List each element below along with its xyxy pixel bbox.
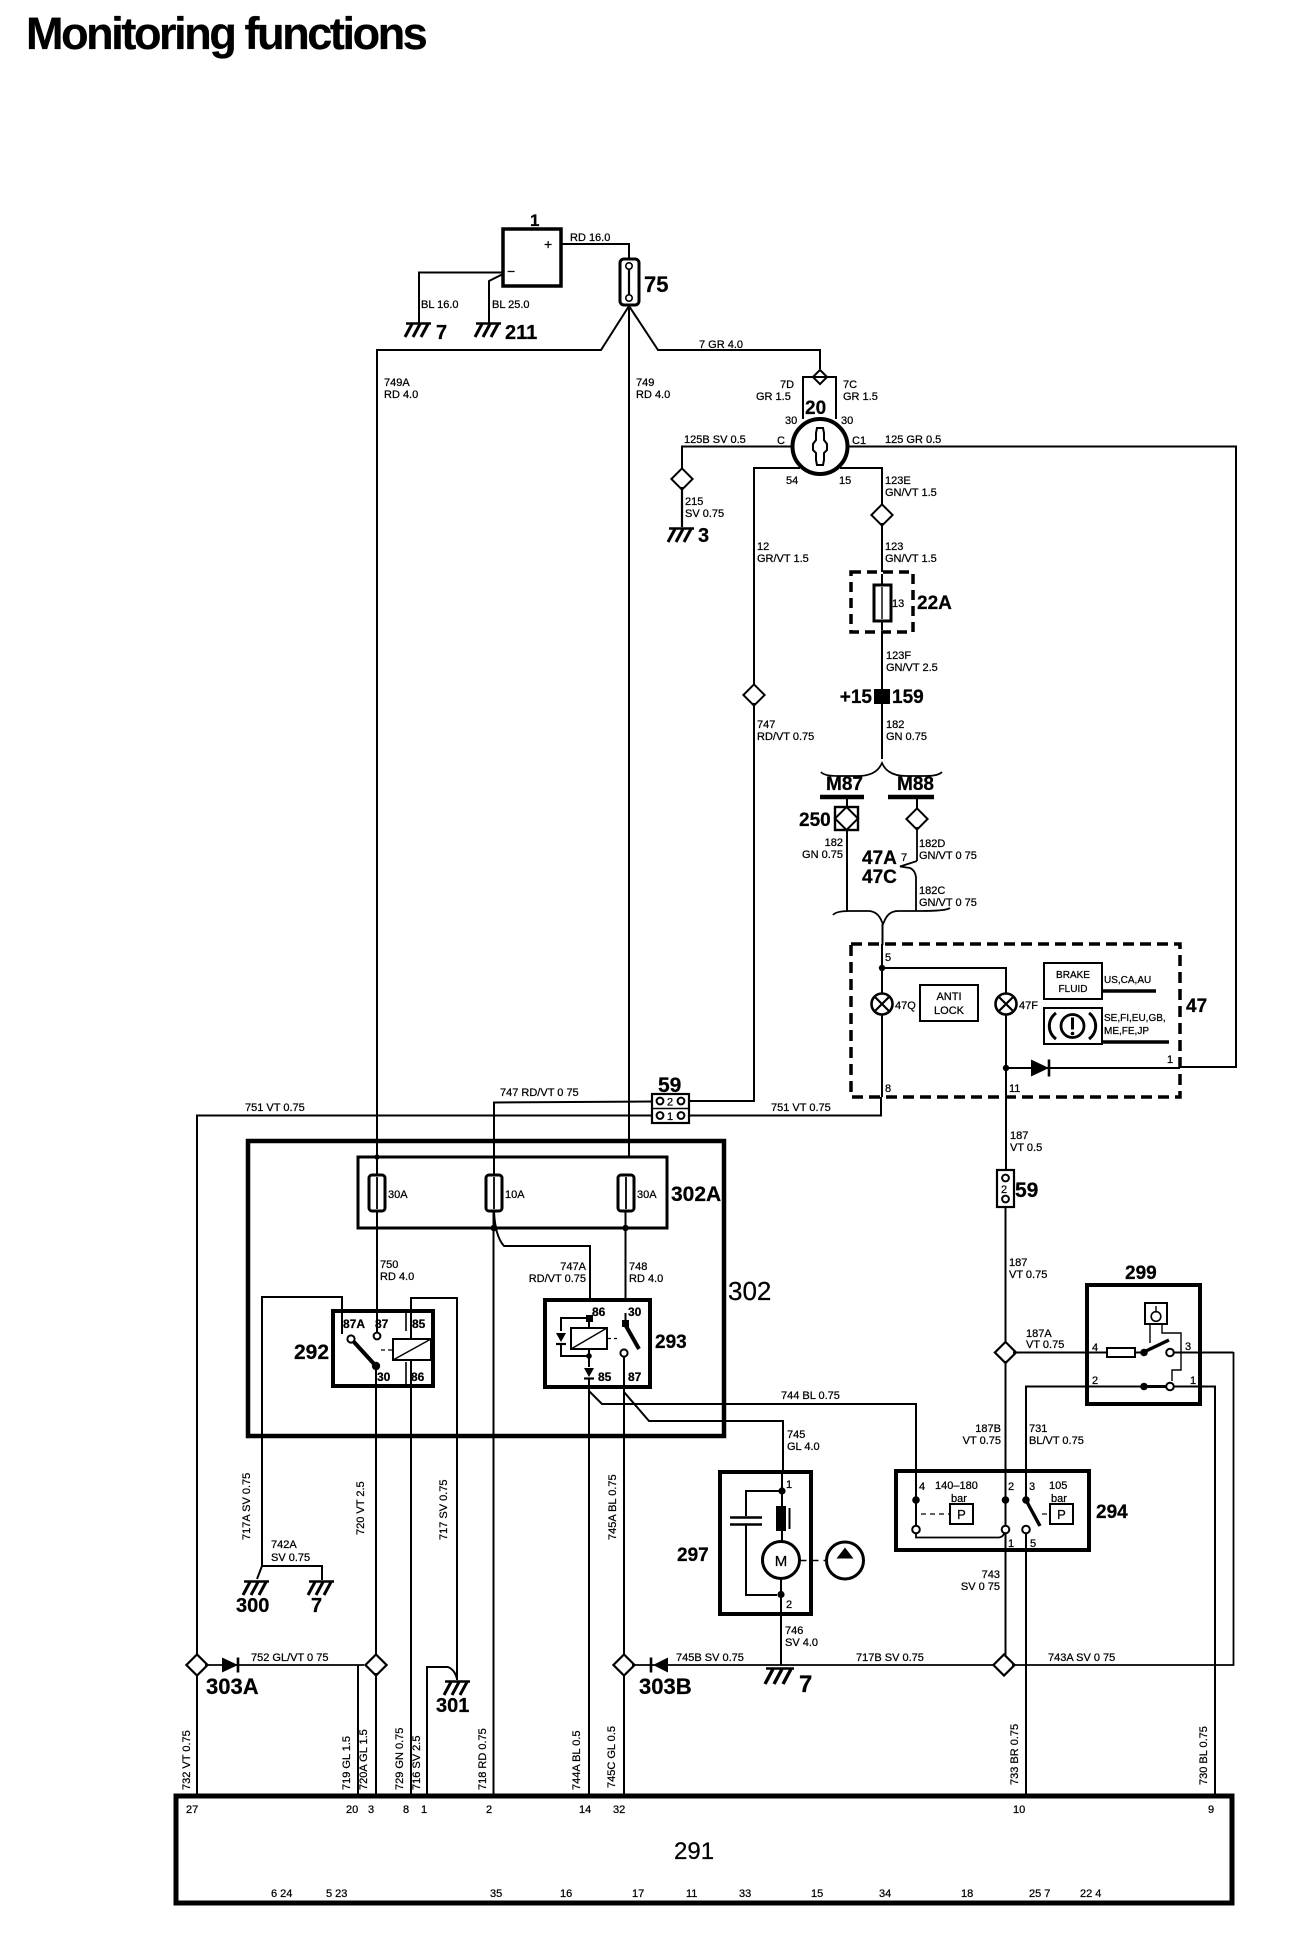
svg-text:291: 291 [674,1838,714,1865]
svg-text:743: 743 [982,1569,1000,1581]
node M88 [888,774,934,809]
svg-text:1: 1 [421,1804,427,1816]
svg-text:SE,FI,EU,GB,: SE,FI,EU,GB, [1104,1013,1166,1024]
svg-text:12: 12 [757,541,769,553]
svg-text:BL/VT 0.75: BL/VT 0.75 [1029,1435,1084,1447]
relay 293 [545,1300,687,1387]
svg-text:215: 215 [685,496,703,508]
connector diamond 215 [671,468,692,489]
svg-text:751 VT 0.75: 751 VT 0.75 [771,1102,831,1114]
svg-text:M88: M88 [897,774,934,795]
wire 87A loop (relay 292 to 717A) [262,1297,342,1436]
svg-text:GN/VT 1.5: GN/VT 1.5 [885,553,937,565]
wire 745 GL 4.0 (relay 293:87 to motor 297:1) [624,1392,820,1472]
connector diamond 123 [871,504,892,525]
brace bottom [833,908,950,945]
svg-text:1: 1 [530,211,539,230]
svg-text:27: 27 [186,1804,198,1816]
svg-text:717B SV 0.75: 717B SV 0.75 [856,1652,924,1664]
wire 749 RD 4.0 (fuse 75 down to fuse 302A:3) [629,304,670,1158]
ground 300 [236,1582,269,1618]
svg-text:SV 4.0: SV 4.0 [785,1637,818,1649]
svg-text:C1: C1 [852,435,866,447]
pin 11 wire [1003,1014,1021,1097]
svg-text:731: 731 [1029,1423,1047,1435]
svg-text:182: 182 [825,837,843,849]
svg-text:BL 16.0: BL 16.0 [421,299,459,311]
svg-text:11: 11 [686,1888,697,1900]
diode and wire 752 GL/VT 0.75 [205,1652,364,1673]
svg-text:745: 745 [787,1429,805,1441]
node M87 [820,774,864,807]
fuse holder 302A [358,1154,721,1231]
ground 7 (mid-left) [308,1582,334,1618]
svg-text:303A: 303A [206,1674,259,1699]
svg-text:744A BL 0.5: 744A BL 0.5 [571,1730,583,1790]
svg-text:182: 182 [886,719,904,731]
svg-text:86: 86 [592,1305,606,1319]
svg-text:85: 85 [598,1370,612,1384]
wire 745A BL 0.75 (relay 293:87 to 303B) [607,1436,624,1655]
svg-text:32: 32 [613,1804,625,1816]
ground 211 [475,322,537,344]
fuse 10A (302A middle) [486,1175,525,1211]
svg-text:87: 87 [628,1370,642,1384]
wire 716 SV 2.5 (291:1 to ground 301) [411,1667,457,1797]
svg-text:2: 2 [667,1097,673,1109]
wire 747A RD/VT 0.75 (fuse2 to relay 293:86) [491,1211,590,1300]
svg-text:BRAKE: BRAKE [1056,970,1090,981]
svg-text:123E: 123E [885,475,911,487]
svg-text:4: 4 [919,1481,925,1493]
svg-text:159: 159 [892,687,924,708]
wire 720 VT 2.5 (relay 292:30 to diamond) [355,1436,376,1655]
svg-text:59: 59 [1015,1179,1038,1202]
svg-text:5 23: 5 23 [326,1888,347,1900]
svg-text:1: 1 [1167,1054,1173,1066]
svg-text:7D: 7D [780,379,794,391]
svg-text:744 BL 0.75: 744 BL 0.75 [781,1390,840,1402]
svg-text:732 VT 0.75: 732 VT 0.75 [181,1730,193,1790]
diode D47 and pin 1 [1006,1054,1180,1077]
connector diamond 303B [613,1654,691,1699]
svg-text:17: 17 [632,1888,644,1900]
svg-text:746: 746 [785,1625,803,1637]
svg-text:2: 2 [1008,1481,1014,1493]
svg-text:GL 4.0: GL 4.0 [787,1441,820,1453]
wire 733 BR 0.75 (294:5 to 291:10) [1009,1550,1026,1797]
svg-text:SV 0 75: SV 0 75 [961,1581,1000,1593]
wire 718 RD 0.75 (fuse2 straight down) [493,1211,495,1436]
wire 749A RD 4.0 (fuse 75 to fuse 302A:1) [377,306,629,1175]
svg-text:SV 0.75: SV 0.75 [271,1552,310,1564]
wire 744A (relay 293:85 down) [588,1387,590,1436]
svg-text:125 GR 0.5: 125 GR 0.5 [885,434,941,446]
wire 747 RD/VT 0.75 (diamond down to 59:2) [689,703,814,1101]
connector diamond 743 [993,1654,1014,1675]
svg-text:1: 1 [1190,1375,1196,1387]
lamp 47F [996,994,1039,1015]
svg-text:RD 4.0: RD 4.0 [384,389,418,401]
svg-text:30: 30 [377,1370,391,1384]
pin 5 [879,944,891,994]
svg-text:GN/VT 2.5: GN/VT 2.5 [886,662,938,674]
wire 215 SV 0.75 [682,487,724,527]
svg-text:2: 2 [1092,1375,1098,1387]
svg-text:3: 3 [698,525,709,547]
svg-text:182C: 182C [919,885,945,897]
svg-text:743A SV 0 75: 743A SV 0 75 [1048,1652,1115,1664]
svg-text:ANTI: ANTI [936,991,961,1003]
svg-text:747A: 747A [560,1261,586,1273]
svg-text:86: 86 [411,1370,425,1384]
svg-text:30A: 30A [637,1189,657,1201]
svg-text:211: 211 [505,322,537,344]
svg-text:35: 35 [490,1888,502,1900]
wire 720 (relay 292:30 down) [375,1386,377,1436]
svg-text:1: 1 [1008,1538,1014,1550]
connector diamond 187A [995,1342,1016,1363]
svg-text:2: 2 [1001,1184,1007,1196]
svg-text:25 7: 25 7 [1029,1888,1050,1900]
svg-text:−: − [507,263,515,279]
svg-text:1: 1 [667,1111,673,1123]
svg-text:SV 0.75: SV 0.75 [685,508,724,520]
svg-text:3: 3 [368,1804,374,1816]
wire 7 GR 4.0 (fuse 75 to ignition switch) [629,306,820,369]
svg-text:RD/VT 0.75: RD/VT 0.75 [529,1273,586,1285]
svg-text:5: 5 [885,952,891,964]
svg-text:VT 0.75: VT 0.75 [1009,1269,1047,1281]
wire 732 VT 0.75 (303A to 291:27) [181,1675,197,1797]
svg-text:16: 16 [560,1888,572,1900]
connector diamond 747 [743,684,764,705]
ground 301 [436,1682,470,1718]
wire 729 (relay 292:86 down) [410,1386,412,1436]
svg-text:VT 0.75: VT 0.75 [963,1435,1001,1447]
svg-text:125B SV 0.5: 125B SV 0.5 [684,434,746,446]
svg-text:140–180: 140–180 [935,1480,978,1492]
svg-text:187B: 187B [975,1423,1001,1435]
wire 187A VT 0.75 (diamond to 299:4) [1013,1328,1087,1353]
svg-text:7: 7 [799,1671,812,1698]
svg-text:85: 85 [412,1317,426,1331]
connector diamond 720A [365,1654,386,1675]
wire 717A SV 0.75 (to ground 300) [241,1436,262,1579]
wire 746 SV 4.0 (297:2 to ground 7) [781,1614,818,1665]
pump symbol [800,1542,864,1579]
svg-text:13: 13 [892,598,904,610]
svg-text:301: 301 [436,1695,469,1717]
title [26,8,427,59]
svg-text:RD 4.0: RD 4.0 [636,389,670,401]
svg-text:M87: M87 [826,774,863,795]
connector diamond 7D/7C [813,370,827,384]
relay 292 [294,1311,433,1386]
pressure switch 294 [896,1471,1128,1550]
svg-text:748: 748 [629,1261,647,1273]
svg-text:123F: 123F [886,650,911,662]
svg-text:3: 3 [1029,1481,1035,1493]
svg-text:730 BL 0.75: 730 BL 0.75 [1198,1726,1210,1785]
wire 744 BL 0.75 (relay 293:85 to 294:4) [589,1390,916,1471]
svg-text:34: 34 [879,1888,891,1900]
wire 730 BL 0.75 (299:1 to 291:9) [1198,1387,1215,1798]
svg-text:RD 16.0: RD 16.0 [570,232,610,244]
svg-text:10: 10 [1013,1804,1025,1816]
svg-text:752 GL/VT 0 75: 752 GL/VT 0 75 [251,1652,328,1664]
svg-text:187: 187 [1009,1257,1027,1269]
svg-text:75: 75 [644,272,668,297]
wire 717B SV 0.75 [782,1652,995,1665]
wire 125B SV 0.5 [682,434,792,470]
svg-text:1: 1 [786,1479,792,1491]
svg-text:749: 749 [636,377,654,389]
wire 748 RD 4.0 (fuse3 to relay 293:30) [626,1211,664,1322]
svg-text:300: 300 [236,1595,269,1617]
svg-text:745B SV 0.75: 745B SV 0.75 [676,1652,744,1664]
svg-text:299: 299 [1125,1263,1157,1284]
wire 187B VT 0.75 (diamond to 294:2) [963,1361,1006,1471]
wire 750 RD 4.0 (fuse1 to relay 292:87) [377,1211,414,1333]
wire BL 25.0 battery minus to ground 211 [489,274,530,323]
wire 85 loop (relay 292 to 717) [411,1298,457,1436]
svg-text:303B: 303B [639,1674,692,1699]
svg-text:30A: 30A [388,1189,408,1201]
ground 7 (battery) [405,322,447,344]
wire 720A GL 1.5 (diamond to 291:3) [358,1673,376,1797]
svg-text:5: 5 [1030,1538,1036,1550]
svg-text:LOCK: LOCK [934,1005,965,1017]
fuse 22A (dashed box with fuse 13) [851,572,952,632]
svg-text:302: 302 [728,1276,771,1306]
wire 751 VT 0.75 (right, 59:1 to 47:8) [689,1097,881,1116]
svg-text:8: 8 [403,1804,409,1816]
svg-text:GN/VT 0 75: GN/VT 0 75 [919,897,977,909]
fuse 75 [620,259,668,305]
wire 182 GN 0.75 [882,704,927,759]
wire 745C GL 0.5 (303B to 291:32) [606,1675,624,1797]
svg-text:RD/VT 0.75: RD/VT 0.75 [757,731,814,743]
svg-text:750: 750 [380,1259,398,1271]
svg-text:751 VT 0.75: 751 VT 0.75 [245,1102,305,1114]
splice +15 159 [840,687,924,708]
svg-text:+15: +15 [840,687,873,708]
svg-text:187: 187 [1010,1130,1028,1142]
svg-text:47Q: 47Q [895,1000,916,1012]
svg-text:745C GL 0.5: 745C GL 0.5 [606,1726,618,1788]
brake warning icon [1044,1008,1169,1044]
connector diamond 303A [186,1654,258,1699]
svg-text:ME,FE,JP: ME,FE,JP [1104,1026,1149,1037]
connector 250 (diamond in square) [799,807,858,831]
label BRAKE FLUID [1044,963,1156,999]
svg-text:747: 747 [757,719,775,731]
svg-text:BL 25.0: BL 25.0 [492,299,530,311]
pin 8 wire [882,1014,891,1097]
svg-text:9: 9 [1208,1804,1214,1816]
svg-text:47C: 47C [862,867,897,888]
wire 123 GN/VT 1.5 [882,523,937,574]
svg-text:20: 20 [805,398,826,419]
svg-text:GR/VT 1.5: GR/VT 1.5 [757,553,809,565]
svg-text:2: 2 [486,1804,492,1816]
svg-text:P: P [957,1507,966,1522]
diode at 303B and wire 745B SV 0.75 [632,1652,782,1673]
svg-text:30: 30 [841,415,853,427]
svg-text:747 RD/VT 0 75: 747 RD/VT 0 75 [500,1087,579,1099]
lamp 47Q [872,994,917,1015]
wire 187 VT 0.5 (47:11 to 59) [1006,1097,1042,1170]
svg-text:FLUID: FLUID [1059,984,1088,995]
wire 745A (relay 293:87 down) [623,1387,625,1436]
connector 59 (2-pin, vertical) [997,1170,1038,1207]
wire 742A SV 0.75 (bridge to ground 7) [262,1539,322,1580]
svg-text:22A: 22A [917,593,952,614]
ground 7 (bottom center) [765,1669,812,1699]
wire to lamp 47F [882,968,1006,994]
svg-text:47F: 47F [1019,1000,1038,1012]
svg-text:105: 105 [1049,1480,1067,1492]
svg-text:293: 293 [655,1332,687,1353]
svg-text:15: 15 [811,1888,823,1900]
svg-text:47A: 47A [862,848,897,869]
svg-text:18: 18 [961,1888,973,1900]
svg-text:733 BR 0.75: 733 BR 0.75 [1009,1724,1021,1785]
svg-text:719 GL 1.5: 719 GL 1.5 [341,1736,353,1790]
wire 12 GR/VT 1.5 / 747 RD/VT 0.75 (terminal 54 down) [754,468,809,686]
svg-text:294: 294 [1096,1502,1128,1523]
svg-text:47: 47 [1186,996,1207,1017]
svg-text:15: 15 [839,475,851,487]
svg-text:P: P [1057,1507,1066,1522]
connector 59 (2-pin, horizontal) [652,1074,689,1123]
svg-text:20: 20 [346,1804,358,1816]
svg-text:729 GN 0.75: 729 GN 0.75 [394,1728,406,1790]
svg-text:22 4: 22 4 [1080,1888,1101,1900]
svg-text:7: 7 [311,1595,322,1617]
ignition switch 20 [756,377,878,487]
brace top (splice fan-out) [821,763,942,776]
svg-text:716 SV 2.5: 716 SV 2.5 [411,1736,423,1790]
svg-text:749A: 749A [384,377,410,389]
svg-text:87A: 87A [343,1317,365,1331]
wire 719 GL 1.5 (branch to 291:20) [341,1665,358,1797]
svg-text:VT 0.5: VT 0.5 [1010,1142,1042,1154]
wire 123F GN/VT 2.5 [882,632,938,690]
svg-text:717 SV 0.75: 717 SV 0.75 [438,1479,450,1540]
svg-text:Monitoring functions: Monitoring functions [26,8,427,59]
svg-text:297: 297 [677,1545,709,1566]
connector diamond 182D [906,808,927,829]
label ANTI LOCK [920,985,978,1021]
switch 299 [1087,1263,1200,1404]
wire 729 GN 0.75 (relay 292:86 to 291:8) [394,1436,411,1797]
svg-text:M: M [775,1553,788,1570]
wire 125 GR 0.5 (C1 to right edge, down to lamp box 47 pin1) [848,434,1236,1067]
svg-text:292: 292 [294,1341,329,1364]
battery 1 [503,211,561,286]
svg-text:3: 3 [1185,1341,1191,1353]
wire 731 BL/VT 0.75 (299:2 to 294:3) [1026,1387,1087,1472]
svg-text:RD 4.0: RD 4.0 [380,1271,414,1283]
wire 744A BL 0.5 (relay 293:85 to 291:14) [571,1436,589,1797]
svg-text:11: 11 [1009,1083,1020,1095]
wire RD 16.0 battery plus to fuse 75 [561,232,629,261]
svg-text:7: 7 [436,322,447,344]
svg-text:33: 33 [739,1888,751,1900]
svg-text:14: 14 [579,1804,591,1816]
svg-text:717A SV 0.75: 717A SV 0.75 [241,1473,253,1540]
svg-text:GN/VT 0 75: GN/VT 0 75 [919,850,977,862]
svg-text:30: 30 [785,415,797,427]
control unit 291 [176,1796,1232,1903]
svg-text:RD 4.0: RD 4.0 [629,1273,663,1285]
wire 299:3 to 743A [1200,1352,1234,1354]
svg-text:745A BL 0.75: 745A BL 0.75 [607,1474,619,1540]
svg-text:7: 7 [901,852,907,864]
ground 3 [668,525,709,547]
svg-text:7C: 7C [843,379,857,391]
svg-text:GR 1.5: GR 1.5 [756,391,791,403]
wire 187 VT 0.75 (59 to diamond) [1006,1207,1048,1344]
wire 182 GN 0.75 (M87 to brace) [802,830,847,911]
svg-text:182D: 182D [919,838,945,850]
svg-text:7 GR 4.0: 7 GR 4.0 [699,339,743,351]
fuse 30A (302A left) [369,1175,408,1211]
svg-text:GN 0.75: GN 0.75 [886,731,927,743]
wire 182D GN/VT 0.75 with 47A/47C jog [862,827,977,911]
washer pump 297 [677,1472,811,1614]
lamp cluster 47 (dashed box) [851,944,1207,1097]
svg-text:GN/VT 1.5: GN/VT 1.5 [885,487,937,499]
svg-text:718 RD 0.75: 718 RD 0.75 [477,1728,489,1790]
svg-text:US,CA,AU: US,CA,AU [1104,975,1151,986]
svg-text:2: 2 [786,1599,792,1611]
svg-text:6 24: 6 24 [271,1888,292,1900]
svg-text:C: C [777,435,785,447]
relay box 302 [248,1141,771,1436]
wire 743 SV 0.75 (294:1 to diamond) [961,1550,1006,1657]
svg-text:250: 250 [799,810,831,831]
svg-text:GN 0.75: GN 0.75 [802,849,843,861]
wire 747 RD/VT 0.75 (59:2 to fuse 302A:2) [494,1087,652,1175]
svg-text:VT 0.75: VT 0.75 [1026,1339,1064,1351]
wire BL 16.0 battery minus to ground 7 [419,273,503,324]
svg-text:302A: 302A [671,1183,721,1206]
svg-text:123: 123 [885,541,903,553]
svg-text:720A GL 1.5: 720A GL 1.5 [358,1729,370,1790]
wire 751 VT 0.75 (left, 59:1 to 303A) [197,1102,652,1655]
wire 718 RD 0.75 (fuse2 to 291:2) [477,1436,494,1797]
fuse 30A (302A right) [618,1175,657,1211]
svg-text:720 VT 2.5: 720 VT 2.5 [355,1481,367,1535]
wire 743A SV 0.75 [1012,1352,1234,1665]
wire 717 SV 0.75 (relay 292:85 to ground 301) [438,1436,457,1680]
svg-text:30: 30 [628,1305,642,1319]
svg-text:+: + [544,236,552,252]
svg-text:54: 54 [786,475,798,487]
svg-text:GR 1.5: GR 1.5 [843,391,878,403]
svg-text:10A: 10A [505,1189,525,1201]
svg-text:8: 8 [885,1083,891,1095]
wire 123E GN/VT 1.5 (terminal 15 down) [840,468,937,507]
svg-text:742A: 742A [271,1539,297,1551]
